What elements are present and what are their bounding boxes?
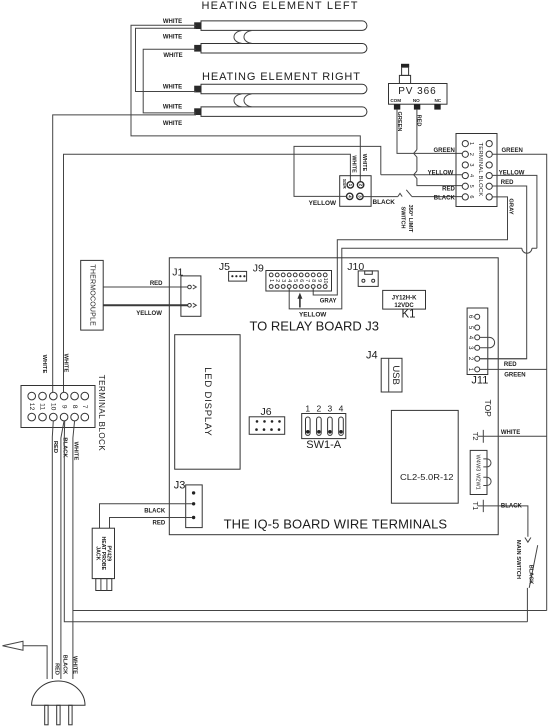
svg-text:J9: J9	[253, 263, 264, 275]
J11 jumper loop pins 4-3	[480, 337, 495, 347]
terminal T2	[478, 430, 483, 443]
connector J9 (to relay board)	[266, 271, 332, 292]
thermocouple	[81, 260, 104, 330]
main switch contact	[525, 538, 531, 543]
connector J6	[249, 417, 285, 435]
SSR screw terminal 1	[347, 182, 353, 188]
component CL2-5.0R-12	[391, 410, 458, 503]
svg-text:3: 3	[280, 279, 286, 282]
svg-text:2: 2	[358, 184, 363, 187]
wire red: thermocouple to J1 pin1	[103, 286, 187, 288]
wire white: left tube2 to right tube2	[143, 49, 196, 113]
svg-text:J11: J11	[471, 374, 488, 386]
terminal 2 left contact	[462, 151, 468, 157]
label 350 LIMIT SWITCH	[400, 205, 414, 233]
terminal 2 right contact	[486, 151, 492, 157]
svg-text:GRAY: GRAY	[507, 198, 513, 214]
wire white: T2 to right column	[483, 435, 546, 437]
J9 pin numbers	[268, 278, 328, 284]
svg-text:5: 5	[292, 279, 298, 282]
wire red: terminal 5 right down to J11 pin 2	[480, 186, 527, 359]
svg-text:WHITE: WHITE	[63, 354, 69, 373]
350 limit switch blade	[406, 190, 462, 197]
svg-text:3: 3	[468, 163, 474, 166]
svg-text:HEATING ELEMENT RIGHT: HEATING ELEMENT RIGHT	[202, 71, 361, 83]
svg-text:RED: RED	[504, 362, 517, 368]
svg-text:TERMINAL BLOCK: TERMINAL BLOCK	[97, 375, 106, 452]
svg-text:10: 10	[322, 278, 328, 284]
terminal 1 left contact	[462, 141, 468, 147]
svg-text:WHITE: WHITE	[163, 104, 182, 110]
svg-text:J10: J10	[347, 261, 364, 273]
svg-text:THE IQ-5 BOARD WIRE TERMINALS: THE IQ-5 BOARD WIRE TERMINALS	[224, 517, 448, 532]
heating element left U-bend	[234, 31, 252, 44]
terminal block contacts	[28, 392, 89, 421]
wire yellow: SSR pin4 loop to terminal 4	[294, 146, 462, 196]
svg-text:6: 6	[468, 195, 474, 198]
connector J4 USB	[381, 358, 402, 392]
svg-text:J5: J5	[219, 261, 230, 273]
wire yellow: terminal 4 right down to J9 pin and T2 column	[289, 175, 537, 309]
bottom rail (green/white) to power cord white	[73, 610, 547, 612]
svg-text:1: 1	[348, 184, 353, 187]
terminal 3 right contact	[486, 162, 492, 168]
terminal block numbers 12-7	[28, 403, 88, 411]
svg-text:GREEN: GREEN	[433, 148, 454, 154]
switch PV 366 body	[389, 84, 448, 105]
terminal T1	[478, 500, 483, 512]
wire: J11 pin2 to red	[480, 358, 527, 360]
wire black: T1 to main switch	[483, 506, 528, 537]
relay K1 JY12H-K 12VDC	[383, 290, 426, 309]
heating element right tube 2	[194, 107, 367, 117]
SSR screw terminal 2	[357, 182, 363, 188]
svg-text:RED: RED	[150, 281, 163, 287]
power cord plug dome	[32, 681, 85, 705]
svg-text:9: 9	[60, 405, 67, 409]
svg-text:HEATING ELEMENT LEFT: HEATING ELEMENT LEFT	[202, 0, 359, 12]
relay SSR block	[340, 176, 371, 207]
terminal 5 left contact	[462, 183, 468, 189]
svg-text:JACK: JACK	[95, 546, 101, 560]
svg-text:T2: T2	[471, 432, 480, 441]
PV429 heat probe jack	[92, 528, 114, 578]
connector J5	[229, 271, 247, 281]
terminal block (12 position)	[21, 386, 95, 428]
svg-text:RED: RED	[153, 521, 166, 527]
svg-text:WHITE: WHITE	[41, 355, 47, 374]
wire black: J3 to heat probe jack	[100, 504, 192, 528]
SW1-A numbers 1 2 3 4	[305, 404, 343, 414]
svg-text:BLACK: BLACK	[144, 508, 166, 514]
heating element right tube 1	[194, 84, 367, 94]
svg-text:TO RELAY BOARD J3: TO RELAY BOARD J3	[250, 319, 380, 334]
svg-text:THERMOCOUPLE: THERMOCOUPLE	[88, 264, 95, 326]
svg-text:WHITE: WHITE	[73, 442, 79, 461]
svg-text:WHITE: WHITE	[501, 430, 520, 436]
svg-text:WHITE: WHITE	[163, 34, 182, 40]
svg-text:W4: W4	[474, 455, 480, 463]
svg-text:BLACK: BLACK	[527, 565, 533, 585]
connector J10	[358, 271, 378, 287]
SSR screw terminal 3	[357, 193, 363, 199]
svg-text:8: 8	[310, 279, 316, 282]
wire yellow: thermocouple to J1 pin2	[103, 304, 187, 306]
heating element left tube 1	[194, 21, 367, 31]
svg-text:SWITCH: SWITCH	[400, 206, 406, 228]
svg-text:W2: W2	[474, 473, 480, 481]
wire black: pin9 to power cord	[61, 421, 64, 679]
svg-text:CL2-5.0R-12: CL2-5.0R-12	[400, 473, 454, 482]
connector J1	[181, 276, 201, 316]
wire white: right tube2 to terminal block pin10	[53, 115, 196, 393]
svg-text:9: 9	[316, 279, 322, 282]
svg-text:1: 1	[268, 279, 274, 282]
svg-text:1: 1	[468, 142, 474, 145]
svg-text:GRAY: GRAY	[320, 298, 337, 304]
svg-text:J4: J4	[366, 349, 378, 361]
svg-text:WHITE: WHITE	[163, 85, 182, 91]
svg-text:1: 1	[305, 404, 310, 414]
svg-text:WHITE: WHITE	[71, 656, 77, 674]
svg-text:RED: RED	[54, 663, 60, 675]
wire red: PV366 NO to terminal 5 (hops over green and yellow)	[414, 110, 462, 186]
wire black: SSR pin3 to 350 limit switch	[363, 193, 402, 196]
svg-text:COM: COM	[390, 98, 401, 103]
svg-text:SSR: SSR	[341, 179, 347, 189]
svg-text:4: 4	[339, 404, 344, 414]
plug prongs	[45, 705, 72, 725]
heating element right U-bend	[234, 94, 252, 107]
svg-text:BLACK: BLACK	[62, 655, 68, 675]
connector J3	[186, 485, 203, 528]
svg-text:J3: J3	[174, 479, 186, 491]
svg-text:8: 8	[71, 405, 78, 409]
svg-text:PV 366: PV 366	[398, 86, 437, 97]
terminal 6 right contact	[486, 194, 492, 200]
svg-text:K1: K1	[402, 308, 416, 320]
svg-text:JY12H-K: JY12H-K	[392, 296, 417, 302]
svg-text:J6: J6	[261, 406, 272, 418]
svg-text:USB: USB	[390, 365, 401, 385]
svg-text:4: 4	[347, 195, 352, 198]
wire red: pin10 to power cord	[52, 421, 53, 679]
svg-text:W3: W3	[474, 463, 480, 471]
wire black: pin9 to bottom rail	[64, 421, 527, 622]
wire red: J3 to heat probe jack	[110, 518, 192, 529]
svg-text:T1: T1	[471, 502, 480, 511]
svg-text:350° LIMIT: 350° LIMIT	[407, 205, 413, 233]
switch PV 366 plunger	[399, 64, 410, 84]
svg-text:WHITE: WHITE	[163, 121, 182, 127]
svg-text:SW1-A: SW1-A	[306, 439, 342, 451]
terminal 3 left contact	[462, 162, 468, 168]
terminal 6 left contact	[462, 194, 468, 200]
svg-text:WHITE: WHITE	[163, 53, 182, 59]
mains arrow annotation	[3, 641, 48, 679]
wire white: pin8 to power cord	[73, 421, 75, 679]
svg-text:YELLOW: YELLOW	[136, 311, 162, 317]
svg-text:TERMINAL BLOCK: TERMINAL BLOCK	[477, 143, 483, 197]
svg-text:W1: W1	[474, 482, 480, 490]
svg-text:WHITE: WHITE	[163, 19, 182, 25]
terminal 4 right contact	[486, 172, 492, 178]
svg-text:2: 2	[316, 404, 321, 414]
SSR screw terminal 4	[347, 193, 353, 199]
PV366 terminal tabs	[394, 104, 441, 109]
svg-text:7: 7	[81, 405, 88, 409]
IQ-5 board outline	[169, 258, 498, 535]
wire green: terminal 2 right down right side to bottom rail	[492, 154, 547, 610]
svg-text:NC: NC	[434, 98, 441, 103]
svg-text:WHITE: WHITE	[351, 155, 357, 173]
svg-text:RED: RED	[52, 441, 58, 453]
svg-text:3: 3	[328, 404, 333, 414]
svg-text:2: 2	[468, 153, 474, 156]
wire green: PV366 COM to terminal 2	[397, 110, 462, 154]
terminal 4 left contact	[462, 172, 468, 178]
svg-text:LED DISPLAY: LED DISPLAY	[202, 367, 213, 436]
wire: J11 pin1 to green	[480, 368, 547, 370]
svg-text:BLACK: BLACK	[501, 504, 523, 510]
svg-text:11: 11	[39, 403, 46, 410]
connector J11	[467, 308, 488, 375]
main switch blade	[529, 545, 538, 588]
svg-text:YELLOW: YELLOW	[428, 170, 454, 176]
svg-text:3: 3	[358, 195, 363, 198]
terminal 5 right contact	[486, 183, 492, 189]
J11 pin numbers	[467, 315, 473, 372]
svg-text:GREEN: GREEN	[504, 372, 525, 378]
winding loops	[483, 459, 491, 467]
svg-text:NO: NO	[413, 98, 420, 103]
svg-text:RED: RED	[442, 187, 455, 193]
svg-text:RED: RED	[501, 180, 514, 186]
wire white: left tube1 to SSR pin2	[131, 25, 360, 181]
svg-text:WHITE: WHITE	[361, 154, 367, 172]
jack plug	[96, 579, 112, 591]
svg-text:5: 5	[468, 185, 474, 188]
terminal block (6 position)	[456, 134, 497, 207]
wire black: main switch to bottom rail	[526, 588, 528, 622]
svg-text:BLACK: BLACK	[434, 196, 456, 202]
svg-text:YELLOW: YELLOW	[299, 312, 327, 319]
heating element left tube 2	[194, 44, 367, 54]
hop arc (yellow over red)	[522, 248, 532, 253]
svg-text:7: 7	[304, 279, 310, 282]
svg-text:6: 6	[298, 279, 304, 282]
svg-text:TOP: TOP	[483, 400, 493, 418]
svg-text:12: 12	[28, 403, 35, 411]
wire gray: terminal 6 right to J9 pin	[313, 197, 507, 295]
svg-text:MAIN SWITCH: MAIN SWITCH	[515, 540, 521, 579]
pin labels COM NO NC	[390, 98, 441, 103]
svg-text:4: 4	[286, 279, 292, 282]
svg-text:10: 10	[50, 403, 57, 411]
yellow wire arrow into J9	[299, 297, 301, 308]
svg-text:GREEN: GREEN	[502, 148, 523, 154]
wire white: left tube1 to right tube1	[136, 28, 197, 91]
svg-text:4: 4	[468, 174, 474, 177]
svg-text:2: 2	[274, 279, 280, 282]
transformer winding block	[470, 450, 487, 494]
terminal 1 right contact	[486, 141, 492, 147]
LED display	[175, 335, 240, 470]
DIP switch SW1-A	[302, 414, 346, 439]
wire white: SSR pin1 to terminal block pin9	[64, 154, 351, 392]
svg-text:BLACK: BLACK	[373, 199, 396, 206]
svg-text:J1: J1	[172, 266, 183, 278]
svg-text:YELLOW: YELLOW	[309, 200, 337, 207]
